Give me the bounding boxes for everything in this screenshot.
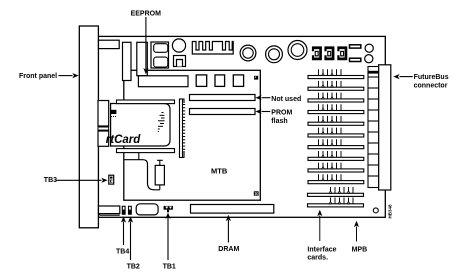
jack connector 2 [266,46,283,63]
panel guide rect B [98,127,109,130]
smartcard bottom strip [117,149,175,153]
interface card slot row 7 [308,139,364,148]
TB1 component [164,206,173,212]
svg-text:DRAM: DRAM [218,246,239,253]
MPB arrow [354,221,359,242]
jack connector 3 [288,41,307,60]
small box component with inner notch [174,56,186,67]
DRAM bar [191,205,274,214]
interface card slot row 2 [308,81,364,90]
interface card slot row 4 [308,104,364,113]
svg-text:MPB: MPB [352,247,368,254]
card pin connector J1 [180,99,186,158]
interface card slot row 6 [308,128,364,137]
svg-text:Not used: Not used [271,96,301,103]
svg-text:rtCard: rtCard [106,134,141,146]
TB4 arrow [121,216,126,245]
loop trace below card [125,160,160,190]
svg-text:FutureBus: FutureBus [414,74,449,81]
round component [172,39,185,52]
PROM flash bar [190,109,256,115]
smartcard top strip [117,100,175,104]
diamond mark bottom-right of MTB [254,191,259,196]
top bracket rect [99,40,120,48]
panel guide rect C [98,131,109,146]
rounded component at bottom [136,204,158,215]
TB4 terminal block [122,206,125,214]
IC square 1 [196,75,207,87]
svg-text:MTB: MTB [211,166,228,175]
DRAM arrow [226,215,231,243]
interface card slot row 1 [308,69,364,78]
smartcard chip mark [111,110,117,117]
MTB block [124,70,260,200]
small circle component 1 [365,44,373,52]
DIP socket with two cutouts [151,42,169,68]
svg-text:TB4: TB4 [116,248,129,255]
svg-text:EEPROM: EEPROM [131,11,162,18]
TB2 arrow [128,216,133,260]
smartcard body [111,104,170,147]
bar component 1 [350,45,361,48]
band A component [123,42,132,80]
Not used bar [190,95,256,101]
PROM flash arrow [255,109,270,114]
interface card slot row 11 [308,187,364,196]
svg-text:connector: connector [414,83,448,90]
FutureBus arrow [393,74,413,79]
interface card slot row 5 [308,116,364,125]
Front panel arrow [59,73,79,78]
svg-text:TB1: TB1 [163,263,176,270]
interface card slot row 10 [308,174,364,183]
band B component [137,42,148,75]
comb / crenellated component [192,42,233,55]
smartcard hatch marks [158,113,165,132]
svg-text:Front panel: Front panel [19,73,57,80]
D-shape component 3 [337,46,347,60]
TB2 terminal block [129,206,132,214]
svg-text:TB2: TB2 [127,263,140,270]
crystal Y1 [155,160,164,190]
IC square 2 [215,75,225,87]
svg-text:HB348: HB348 [387,204,392,219]
TB3 jumper component [109,175,114,184]
interface card slot row 12 [308,198,364,207]
svg-text:flash: flash [271,118,287,125]
interface card slot row 8 [308,151,364,160]
Not used arrow [255,95,270,100]
bar component 2 [350,58,361,61]
interface card slot row 9 [308,163,364,172]
small circle component 2 [365,55,373,63]
main board MPB outline [98,36,385,217]
front panel [79,26,98,228]
IC square 3 [233,75,243,87]
svg-text:TB3: TB3 [44,177,57,184]
svg-text:PROM: PROM [271,110,292,117]
interface card slot row 3 [308,93,364,102]
small mark top-right of MTB [254,76,258,80]
loop tick [138,153,140,160]
EEPROM bar [138,76,188,87]
Interface cards arrow [317,210,322,241]
svg-text:cards.: cards. [307,255,328,262]
small circle bottom-right [373,208,378,213]
D-shape component 2 [324,46,334,60]
EEPROM arrow [143,17,148,74]
TB3 arrow [56,178,108,183]
jack connector 1 [240,45,256,61]
FutureBus connector [368,65,391,190]
D-shape component 1 [312,46,322,60]
TB1 arrow [165,213,170,260]
svg-text:Interface: Interface [307,247,336,254]
bottom bracket bar [99,206,120,215]
panel guide rect A [98,101,109,127]
